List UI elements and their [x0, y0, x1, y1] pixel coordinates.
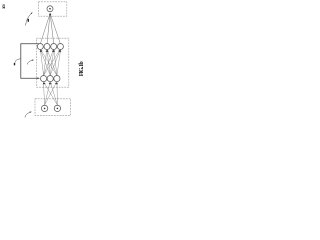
arrowhead into output node — [49, 13, 51, 16]
feedback loop wire — [21, 44, 40, 79]
hidden row1 node H1 — [37, 44, 43, 50]
dashed box hidden layers — [37, 38, 69, 87]
hidden row2 node G2 — [47, 76, 53, 82]
dashed box output layer — [38, 2, 66, 16]
wires row2 to row1 (bipartite) — [40, 50, 60, 76]
output node dot — [49, 8, 51, 10]
leader hook numeral speck — [28, 19, 29, 22]
hidden row2 node G3 — [54, 76, 60, 82]
svg-text:FIG. 1b: FIG. 1b — [79, 61, 85, 77]
input node I2 — [54, 105, 60, 111]
wires input row to row2 (bipartite) — [44, 82, 58, 105]
hidden row1 node H2 — [44, 44, 50, 50]
svg-text:100: 100 — [2, 4, 6, 9]
input node I1 dot — [44, 108, 46, 110]
input node I2 dot — [57, 108, 59, 110]
leader hook to input box — [25, 112, 32, 118]
dashed box input layer — [35, 99, 71, 116]
leader hook to loop wire — [15, 59, 20, 63]
hidden row1 node H3 — [51, 44, 57, 50]
output node U-out — [47, 6, 53, 12]
loop hook numeral speck — [14, 63, 15, 65]
fan wires row1 to output node — [40, 15, 60, 44]
hidden row2 node G1 — [41, 76, 47, 82]
input node I1 — [41, 105, 47, 111]
hidden row1 node H4 — [57, 44, 63, 50]
leader hook to output box — [26, 13, 33, 26]
leader hook to hidden box — [27, 60, 33, 65]
